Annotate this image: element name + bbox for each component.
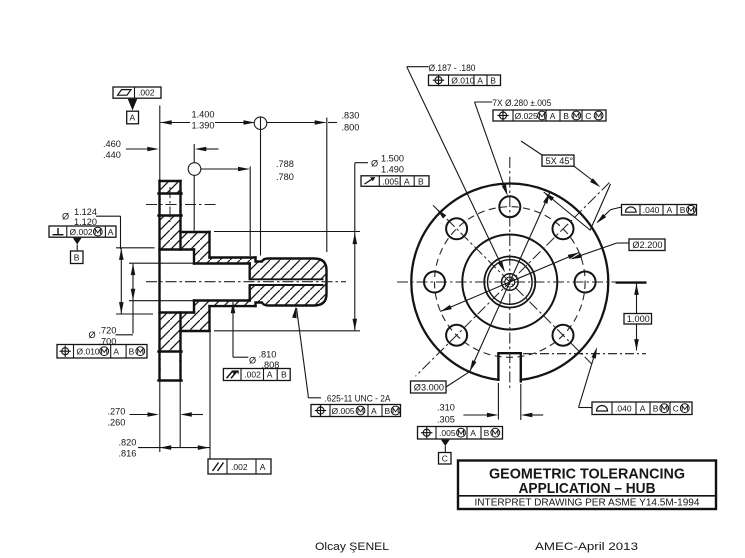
svg-text:Ø: Ø [249, 356, 256, 366]
svg-text:B: B [563, 111, 569, 121]
extension line: thread end up [326, 118, 328, 253]
svg-text:Ø.010: Ø.010 [451, 76, 474, 86]
pilot slit (white cut) [249, 280, 324, 285]
pilot slit outline (thinner) [250, 279, 324, 285]
svg-text:.040: .040 [643, 205, 660, 215]
svg-text:A: A [113, 347, 119, 357]
profile FCF .040 A B(M) C(M), bottom right [579, 346, 693, 414]
svg-text:7X Ø.280 ±.005: 7X Ø.280 ±.005 [492, 98, 551, 108]
diagonal centerline 135-315 [433, 205, 592, 364]
dia .810/.808 label with total runout FCF [223, 302, 290, 381]
centerline: main axis [146, 281, 346, 283]
svg-text:Ø.025: Ø.025 [515, 111, 538, 121]
svg-text:Ø2.200: Ø2.200 [632, 240, 662, 250]
svg-text:1.490: 1.490 [381, 164, 404, 174]
svg-text:Ø: Ø [89, 330, 96, 340]
svg-text:B: B [484, 428, 490, 438]
svg-text:A: A [470, 428, 476, 438]
bolt circle dia 2.200 (dashed) [435, 207, 586, 358]
svg-text:.002: .002 [231, 462, 248, 472]
svg-text:.260: .260 [108, 418, 126, 428]
counterbore outline [160, 248, 195, 250]
svg-text:Ø: Ø [62, 212, 69, 222]
svg-text:.005: .005 [382, 176, 399, 186]
front view centerlines [397, 157, 645, 388]
slot edge [159, 350, 182, 352]
svg-text:.040: .040 [615, 403, 632, 413]
boss top / bottom [181, 231, 210, 233]
flange face (datum A) [158, 181, 160, 381]
leader: 7X dia .280 bolt holes [475, 98, 607, 197]
svg-text:1.500: 1.500 [381, 154, 404, 164]
boss circle dia 1.500 [462, 235, 557, 330]
svg-text:B: B [129, 347, 135, 357]
7X bolt holes dia .280 [424, 196, 596, 346]
svg-text:A: A [130, 113, 136, 123]
svg-text:INTERPRET DRAWING PER ASME Y14: INTERPRET DRAWING PER ASME Y14.5M-1994 [475, 498, 700, 509]
svg-text:Olcay ŞENEL: Olcay ŞENEL [315, 541, 389, 553]
dim line dia 1.124 (vertical, arrows both ends) [116, 248, 155, 314]
svg-text:A: A [477, 76, 483, 86]
svg-text:.720: .720 [99, 326, 117, 336]
centerline: bolt hole vertical [169, 187, 171, 222]
svg-text:Ø: Ø [371, 159, 378, 169]
.625-11 UNC - 2A thread callout with position FCF [292, 306, 400, 416]
counterbore dia 1.124 (white cut) [161, 250, 194, 311]
flange bottom [159, 379, 182, 381]
svg-text:.002: .002 [244, 369, 261, 379]
dim 1.000 [523, 283, 652, 353]
svg-text:.780: .780 [276, 172, 294, 182]
svg-text:B: B [680, 205, 686, 215]
left section view: hub cross-section hatched body [160, 181, 327, 381]
svg-text:.830: .830 [342, 110, 360, 120]
flange back face [179, 181, 181, 250]
dia 1.500/1.490 label with circular runout FCF [214, 154, 429, 331]
svg-text:B: B [490, 76, 496, 86]
svg-text:A: A [640, 403, 646, 413]
svg-text:.810: .810 [259, 350, 277, 360]
svg-text:.310: .310 [437, 403, 455, 413]
svg-text:Ø.005: Ø.005 [332, 406, 355, 416]
svg-text:A: A [550, 111, 556, 121]
svg-text:1.124: 1.124 [74, 207, 97, 217]
flatness FCF (.002) with datum A flag, top left [113, 87, 161, 124]
svg-text:.460: .460 [103, 139, 121, 149]
dia .720/.700 label with position FCF [57, 326, 147, 359]
svg-text:A: A [371, 406, 377, 416]
outer circle dia 3.000 [411, 184, 608, 381]
thread relief notch + threaded end outline [256, 258, 327, 307]
dim .788/.780 [188, 144, 294, 256]
svg-text:AMEC-April 2013: AMEC-April 2013 [535, 541, 638, 553]
svg-text:.800: .800 [342, 122, 360, 132]
extension line: flange face up [159, 106, 161, 181]
svg-text:5X 45°: 5X 45° [546, 156, 574, 166]
bore outline [194, 262, 250, 264]
svg-text:C: C [585, 111, 591, 121]
5X 45 deg chamfer flag [521, 141, 611, 231]
title block [458, 461, 716, 510]
svg-text:A: A [667, 205, 673, 215]
dia 1.124/1.120 label with perpendicularity FCF and datum B [49, 207, 121, 264]
target symbol on 1.400 dim [254, 117, 267, 130]
center hole circles [502, 274, 519, 291]
bore circle dia .810 [484, 257, 535, 308]
svg-text:.816: .816 [119, 449, 137, 459]
dia 2.200 dimension line across bolt circle [439, 239, 665, 314]
svg-text:B: B [418, 176, 424, 186]
svg-text:A: A [404, 176, 410, 186]
svg-text:B: B [74, 253, 80, 263]
shaft top / bottom [210, 256, 256, 258]
svg-text:A: A [267, 369, 273, 379]
svg-text:.625-11 UNC - 2A: .625-11 UNC - 2A [325, 394, 392, 404]
svg-text:Ø3.000: Ø3.000 [414, 383, 444, 393]
svg-text:B: B [653, 403, 659, 413]
left view bold outlines [159, 181, 327, 381]
svg-text:C: C [442, 454, 448, 464]
svg-text:.002: .002 [138, 88, 155, 98]
svg-text:B: B [281, 369, 287, 379]
slot width dim .310/.305 with position FCF and datum C [418, 383, 544, 464]
svg-text:.820: .820 [119, 438, 137, 448]
svg-text:.788: .788 [276, 159, 294, 169]
slot band (white cut) [161, 352, 180, 379]
bolt hole edges [159, 192, 182, 194]
svg-text:.305: .305 [437, 415, 455, 425]
boss face [208, 232, 210, 258]
bolt hole band (white cut) [161, 194, 180, 215]
svg-text:Ø.187 - .180: Ø.187 - .180 [429, 63, 476, 73]
svg-text:Ø.002: Ø.002 [70, 227, 93, 237]
svg-text:1.400: 1.400 [192, 110, 215, 120]
svg-text:B: B [385, 406, 391, 416]
counterbore circle dia .720 [488, 260, 533, 305]
profile FCF .040 A B(M), right side [542, 190, 696, 230]
svg-text:A: A [108, 227, 114, 237]
dim .820/.816 boss length [119, 333, 211, 460]
svg-text:.270: .270 [108, 407, 126, 417]
svg-text:.005: .005 [439, 428, 456, 438]
centerline: bolt hole [146, 204, 218, 206]
dim .270/.260 flange thickness [108, 382, 204, 452]
front view of hub [411, 184, 608, 392]
dim line dia .720 (vertical) [129, 263, 193, 333]
flange top [160, 180, 181, 182]
svg-text:1.000: 1.000 [627, 314, 650, 324]
dim .460/.440 counterbore depth [103, 139, 219, 160]
leader: dia .187 hole callout to center [407, 63, 507, 274]
svg-text:Ø.010: Ø.010 [77, 347, 100, 357]
slot sides and top edge [498, 353, 520, 381]
svg-text:A: A [260, 462, 266, 472]
bore dia .810 (white cut) [194, 264, 249, 299]
dia 3.000 dimension line across outer circle [411, 191, 553, 393]
slot cutout (white over circle bottom) [500, 350, 520, 391]
parallelism FCF (.002 A) [208, 459, 271, 474]
svg-text:1.390: 1.390 [192, 120, 215, 130]
svg-text:.440: .440 [103, 150, 121, 160]
svg-text:APPLICATION – HUB: APPLICATION – HUB [519, 481, 656, 497]
dim 1.400/1.390 and .830/.800 [160, 110, 359, 256]
svg-text:C: C [673, 403, 679, 413]
diagonal centerline 45-225 [416, 183, 610, 377]
